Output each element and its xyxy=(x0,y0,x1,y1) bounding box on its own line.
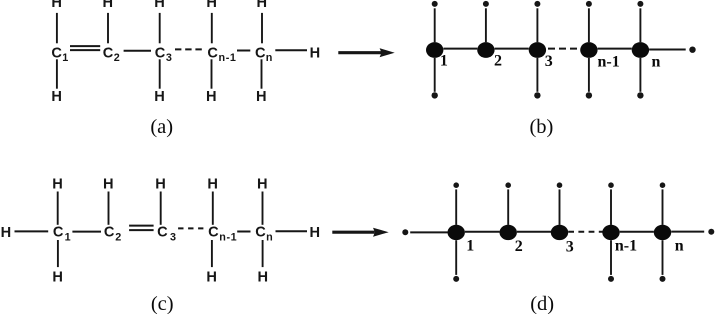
edge 1-2 (d) xyxy=(465,231,500,233)
pendant edge below vertex n-1 (b) xyxy=(586,58,592,99)
double bond C2=C3 (c) xyxy=(129,226,154,231)
vertex 1 (b) xyxy=(426,42,443,58)
vertex n-1 (d) xyxy=(602,225,619,240)
vertex 1 (d) xyxy=(448,225,465,240)
atom Cn (c) xyxy=(255,225,272,244)
bond Cn to top H (a) xyxy=(261,13,263,43)
svg-text:n: n xyxy=(266,231,273,243)
svg-text:3: 3 xyxy=(170,231,176,243)
svg-text:H: H xyxy=(103,0,114,11)
svg-text:H: H xyxy=(206,89,217,105)
bond C3 to top H (c) xyxy=(160,192,162,225)
atom C2 (c) xyxy=(104,225,121,244)
bond Cn-1 to top H (a) xyxy=(211,13,213,43)
vertex 3 (d) xyxy=(551,225,568,240)
svg-text:C: C xyxy=(255,225,266,241)
bond Cn to bottom H (a) xyxy=(261,59,263,88)
svg-text:n-1: n-1 xyxy=(219,52,237,64)
pendant edge above vertex 3 (d) xyxy=(557,182,563,225)
bond Cn-1-Cn (c) xyxy=(237,231,250,233)
edge 1-2 (b) xyxy=(443,48,477,50)
pendant edge above vertex n-1 (d) xyxy=(608,182,614,225)
pendant edge above vertex 1 (b) xyxy=(432,1,438,42)
svg-text:C: C xyxy=(51,45,62,61)
svg-text:H: H xyxy=(207,177,218,193)
pendant edge below vertex 1 (d) xyxy=(453,240,459,282)
bond C1 to top H (a) xyxy=(56,13,58,43)
bond C1 to bottom H (c) xyxy=(57,240,59,267)
pendant edge above vertex 2 (d) xyxy=(505,182,511,225)
svg-text:H: H xyxy=(1,225,12,241)
vertex 3 (b) xyxy=(529,42,546,58)
svg-text:n-1: n-1 xyxy=(597,54,619,71)
pendant edge above vertex 2 (b) xyxy=(483,1,489,42)
atom C3 (c) xyxy=(157,225,176,244)
svg-text:H: H xyxy=(52,270,63,286)
edge 2-3 (b) xyxy=(495,48,529,50)
bond C2-C3 (a) xyxy=(124,50,151,52)
vertex n (d) xyxy=(654,225,671,240)
bond Cn to bottom H (c) xyxy=(262,240,264,267)
pendant edge above vertex n (d) xyxy=(660,182,666,225)
svg-text:1: 1 xyxy=(466,238,474,255)
vertex n-1 (b) xyxy=(580,42,597,58)
bond C2 to top H (c) xyxy=(108,192,110,225)
svg-text:(a): (a) xyxy=(150,116,173,138)
bond Cn-H (c) xyxy=(276,230,308,232)
svg-text:1: 1 xyxy=(440,53,448,70)
svg-text:C: C xyxy=(155,45,166,61)
bond Cn-H (a) xyxy=(275,49,307,51)
bond C1 to bottom H (a) xyxy=(56,59,58,88)
reaction arrow (c) to (d) xyxy=(332,228,388,237)
dashed edge 3 to n-1 (b) xyxy=(548,48,578,50)
svg-text:C: C xyxy=(255,45,266,61)
reaction arrow (a) to (b) xyxy=(338,48,394,57)
atom Cn-1 (c) xyxy=(208,225,237,244)
svg-text:H: H xyxy=(258,270,269,286)
atom Cn (a) xyxy=(255,45,272,64)
edge n-1 to n (b) xyxy=(598,48,632,50)
bond H-C1 (c) xyxy=(15,230,49,232)
svg-text:H: H xyxy=(155,177,166,193)
atom C1 (c) xyxy=(53,225,71,244)
svg-text:(b): (b) xyxy=(529,116,553,138)
bond Cn to top H (c) xyxy=(262,192,264,225)
svg-text:H: H xyxy=(52,177,63,193)
svg-text:(c): (c) xyxy=(151,293,174,314)
vertex 2 (b) xyxy=(477,42,494,58)
svg-text:H: H xyxy=(206,0,217,11)
svg-text:2: 2 xyxy=(494,53,502,70)
atom C3 (a) xyxy=(155,45,172,64)
pendant edge above vertex n (b) xyxy=(637,1,643,42)
vertex n (b) xyxy=(632,42,649,58)
svg-text:1: 1 xyxy=(62,52,68,64)
dashed edge 3 to n-1 (d) xyxy=(568,231,602,233)
edge 2-3 (d) xyxy=(517,231,551,233)
bond C1 to top H (c) xyxy=(57,192,59,225)
double bond C1=C2 (a) xyxy=(70,46,100,50)
svg-text:1: 1 xyxy=(65,231,71,243)
svg-text:3: 3 xyxy=(566,239,574,256)
dashed bond C3...Cn-1 (a) xyxy=(175,48,202,50)
PANEL-A molecule xyxy=(51,0,320,138)
svg-text:2: 2 xyxy=(115,231,121,243)
bond C1-C2 (c) xyxy=(72,231,101,233)
svg-text:H: H xyxy=(310,45,321,61)
pendant edge left of vertex 1 (d) xyxy=(402,229,447,235)
svg-text:n-1: n-1 xyxy=(219,231,237,243)
svg-text:H: H xyxy=(310,225,321,241)
dashed bond C3...Cn-1 (c) xyxy=(178,227,203,229)
svg-text:n: n xyxy=(675,237,684,254)
svg-text:H: H xyxy=(51,89,62,105)
atom C2 (a) xyxy=(103,45,120,64)
pendant edge above vertex 3 (b) xyxy=(534,1,540,42)
svg-text:H: H xyxy=(154,0,165,11)
svg-text:C: C xyxy=(104,225,115,241)
svg-text:(d): (d) xyxy=(530,293,554,314)
svg-text:H: H xyxy=(257,177,268,193)
bond Cn-1-Cn (a) xyxy=(237,50,250,52)
svg-text:C: C xyxy=(157,225,168,241)
svg-text:C: C xyxy=(207,45,218,61)
pendant edge right of vertex n (d) xyxy=(671,229,714,235)
svg-text:2: 2 xyxy=(515,238,523,255)
svg-text:C: C xyxy=(103,45,114,61)
PANEL-D graph xyxy=(402,182,714,314)
pendant edge below vertex 3 (b) xyxy=(534,58,540,99)
svg-text:n: n xyxy=(652,53,661,70)
svg-text:2: 2 xyxy=(114,52,120,64)
pendant edge below vertex 1 (b) xyxy=(432,58,438,99)
svg-text:H: H xyxy=(103,177,114,193)
vertex 2 (d) xyxy=(500,225,517,240)
pendant edge below vertex n (b) xyxy=(637,58,643,99)
bond Cn-1 to bottom H (a) xyxy=(211,59,213,88)
svg-text:3: 3 xyxy=(166,52,172,64)
pendant edge right of vertex n (b) xyxy=(649,47,696,53)
edge n-1 to n (d) xyxy=(620,231,654,233)
atom C1 (a) xyxy=(51,45,68,64)
atom Cn-1 (a) xyxy=(207,45,236,64)
pendant edge above vertex 1 (d) xyxy=(453,182,459,225)
PANEL-B graph xyxy=(426,1,696,138)
svg-text:H: H xyxy=(256,89,267,105)
svg-text:n: n xyxy=(266,52,273,64)
pendant edge below vertex n (d) xyxy=(660,240,666,282)
svg-text:H: H xyxy=(154,89,165,105)
pendant edge below vertex n-1 (d) xyxy=(608,240,614,282)
svg-text:C: C xyxy=(53,225,64,241)
svg-text:H: H xyxy=(206,270,217,286)
bond C3 to top H (a) xyxy=(159,13,161,43)
bond C3 to bottom H (a) xyxy=(159,59,161,88)
svg-text:n-1: n-1 xyxy=(615,237,637,254)
bond Cn-1 to top H (c) xyxy=(212,192,214,225)
PANEL-C molecule xyxy=(1,177,320,314)
svg-text:H: H xyxy=(51,0,62,11)
svg-text:H: H xyxy=(257,0,268,11)
pendant edge above vertex n-1 (b) xyxy=(586,1,592,42)
bond C2 to top H (a) xyxy=(107,13,109,43)
bond Cn-1 to bottom H (c) xyxy=(211,240,213,267)
svg-text:C: C xyxy=(208,225,219,241)
svg-text:3: 3 xyxy=(545,53,553,70)
